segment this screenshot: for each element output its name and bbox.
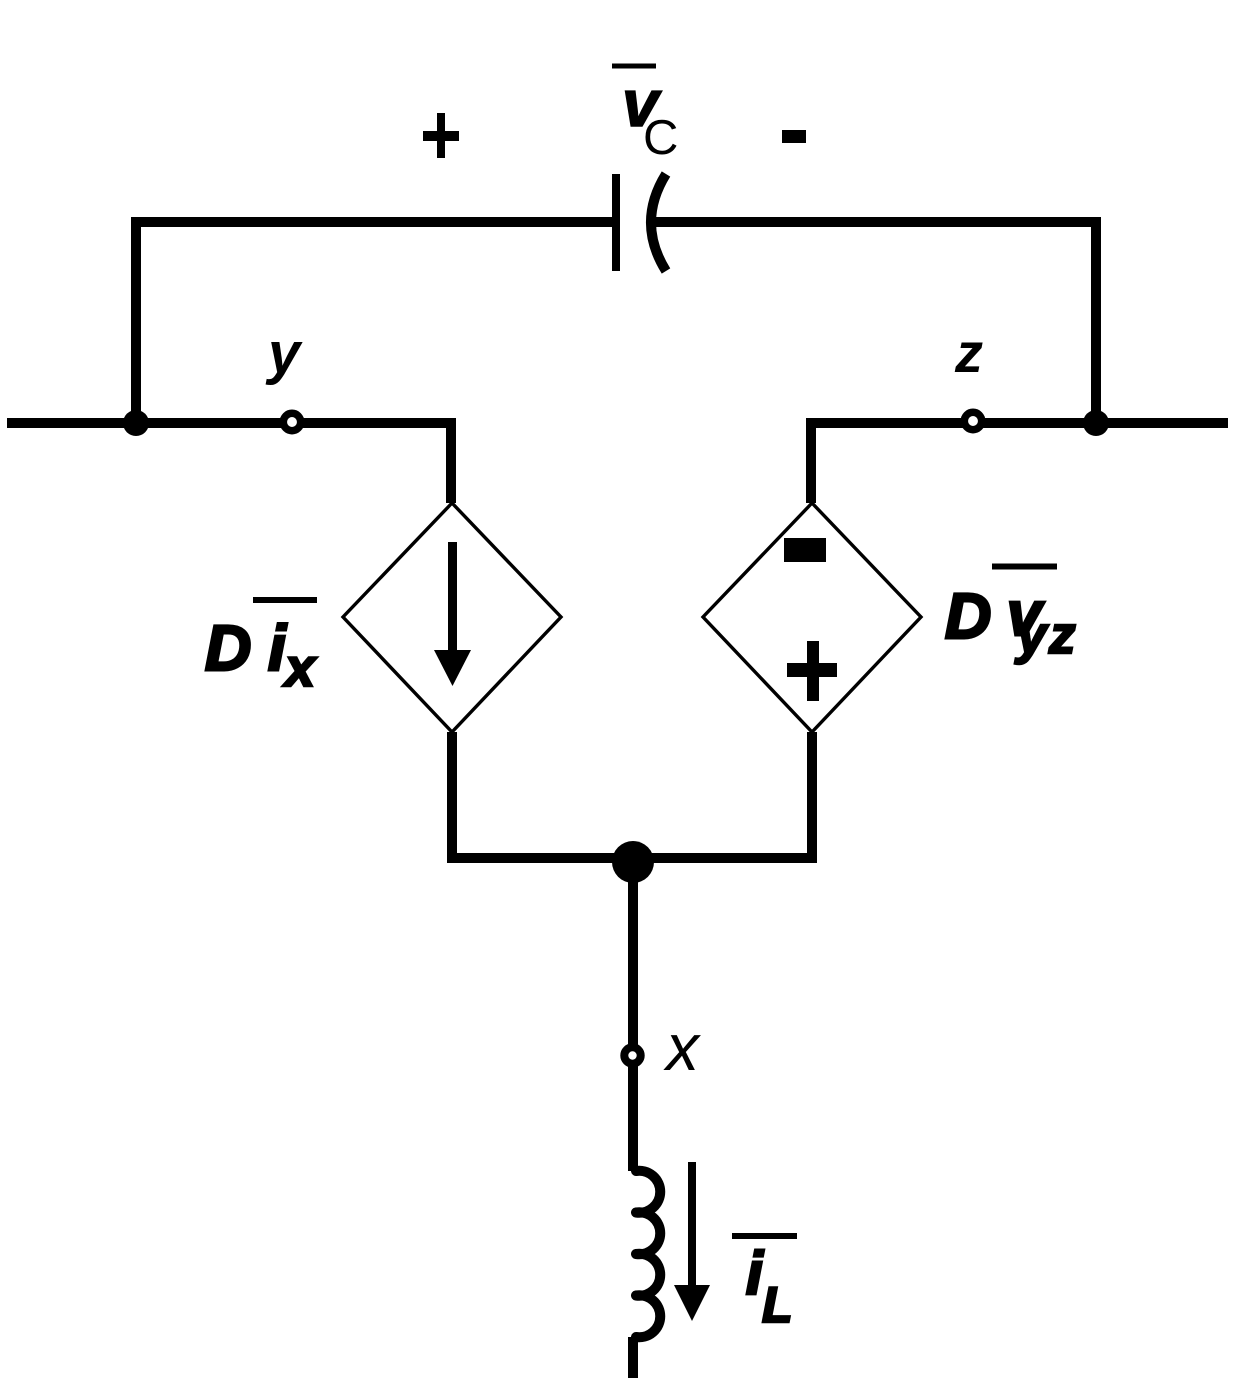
dependent voltage source diamond (right) <box>703 503 921 732</box>
label i_L <box>732 1233 797 1239</box>
svg-text:y: y <box>265 321 303 386</box>
label v_C overline <box>612 64 656 69</box>
capacitor C curved plate <box>651 174 666 271</box>
wire: left capacitor branch <box>136 222 612 428</box>
svg-text:z: z <box>954 321 983 384</box>
junction at left capacitor tap <box>123 410 149 436</box>
plus sign of capacitor polarity <box>423 131 459 141</box>
wire: right lead into node z then down to right diamond <box>811 423 1228 503</box>
wire: right diamond bottom to center junction <box>633 732 812 858</box>
capacitor C flat plate <box>612 174 620 271</box>
inductor current arrow <box>688 1162 696 1287</box>
svg-text:z: z <box>1048 606 1076 665</box>
minus sign of capacitor polarity <box>782 130 806 143</box>
center junction dot <box>612 841 654 883</box>
junction at right capacitor tap <box>1083 410 1109 436</box>
wire: left lead into node y then down to left diamond <box>7 423 451 503</box>
arrow inside current source <box>448 542 457 652</box>
svg-text:D: D <box>945 580 991 652</box>
dependent current source diamond (left) <box>343 503 561 732</box>
svg-text:D: D <box>205 612 251 684</box>
wire: right capacitor branch <box>653 222 1096 428</box>
plus sign inside voltage source <box>807 641 819 701</box>
svg-text:C: C <box>643 111 678 165</box>
wire: junction down through node x to inductor <box>628 858 638 1171</box>
svg-text:x: x <box>282 638 317 698</box>
wire: left diamond bottom to center junction <box>452 732 633 858</box>
inductor L coil <box>636 1171 660 1337</box>
wire: inductor bottom lead <box>628 1337 638 1378</box>
svg-text:L: L <box>762 1277 793 1333</box>
svg-text:y: y <box>1014 606 1049 665</box>
node y terminal circle <box>283 413 300 430</box>
minus sign inside voltage source <box>784 538 826 562</box>
svg-text:x: x <box>663 1010 701 1084</box>
node z terminal circle <box>964 412 981 429</box>
node x terminal circle <box>624 1047 640 1063</box>
